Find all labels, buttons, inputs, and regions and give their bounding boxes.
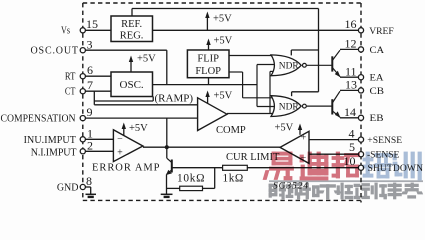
svg-text:+5V: +5V xyxy=(213,14,232,25)
svg-text:N.I.IMPUT: N.I.IMPUT xyxy=(31,147,77,158)
ground at Q3 emitter xyxy=(161,194,173,197)
wire VREF net from REF.REG. to pin 16 xyxy=(153,29,359,31)
svg-text:16: 16 xyxy=(345,17,357,31)
watermark blue char xun xyxy=(393,152,421,180)
svg-text:GND: GND xyxy=(57,183,79,194)
wire Q3 base to shutdown network xyxy=(167,168,223,189)
svg-text:RT: RT xyxy=(65,72,76,83)
wire oscillator clock line xyxy=(153,84,258,86)
watermark blue char pei xyxy=(363,152,421,180)
pin 3 OSC.OUT xyxy=(31,37,167,56)
svg-text:+5V: +5V xyxy=(137,54,156,65)
svg-text:+5V: +5V xyxy=(275,123,294,134)
NOR gate U-NOR1 xyxy=(271,55,306,76)
pin 7 CT xyxy=(65,78,111,98)
pin 4 +SENSE xyxy=(309,127,402,146)
svg-text:+SENSE: +SENSE xyxy=(367,135,402,146)
watermark red char yi xyxy=(263,152,359,180)
svg-text:+: + xyxy=(301,132,307,143)
resistor R2 1kOhm xyxy=(223,165,248,184)
svg-text:5: 5 xyxy=(349,140,355,154)
svg-text:8: 8 xyxy=(86,174,92,188)
svg-text:OSC.OUT: OSC.OUT xyxy=(31,46,79,57)
svg-text:FLIP: FLIP xyxy=(197,54,219,65)
svg-text:3: 3 xyxy=(87,37,93,51)
svg-text:9: 9 xyxy=(87,105,93,119)
svg-text:NDR: NDR xyxy=(279,61,300,71)
wire error amp output / PWM node xyxy=(143,146,280,148)
+5V supply arrow above ERROR AMP xyxy=(122,123,149,136)
svg-text:15: 15 xyxy=(86,17,98,31)
+5V supply arrow above CUR LIMIT xyxy=(275,123,303,135)
junction PWM node xyxy=(165,145,169,149)
IC boundary dashed box xyxy=(83,3,361,203)
wire ramp from CT and OSC to comparator xyxy=(94,91,197,105)
wire OSC.OUT to clock line xyxy=(166,50,168,84)
svg-text:7: 7 xyxy=(87,78,93,92)
svg-text:+5V: +5V xyxy=(129,123,148,134)
svg-text:−: − xyxy=(117,134,123,145)
watermark gray slogan shepin he tianxian sheji zhuanjia xyxy=(269,183,423,199)
current limit amplifier CUR LIMIT xyxy=(226,131,309,164)
wire +5V bus from REF.REG. top to NOR gates xyxy=(132,9,319,97)
pin 1 INU.IMPUT xyxy=(24,126,114,146)
+5V supply arrow above OSC xyxy=(129,54,156,73)
watermark red char di xyxy=(300,152,328,180)
svg-text:ERROR AMP: ERROR AMP xyxy=(92,162,160,173)
svg-text:1kΩ: 1kΩ xyxy=(223,172,244,184)
pin 2 N.I.IMPUT xyxy=(31,139,114,159)
svg-text:CA: CA xyxy=(370,45,385,56)
error amplifier ERROR AMP xyxy=(92,130,160,174)
+5V supply arrow above COMP xyxy=(205,90,232,103)
oscillator OSC. xyxy=(111,72,153,97)
svg-text:COMP: COMP xyxy=(216,125,246,136)
wire clock to NOR1 and NOR2 xyxy=(257,65,274,107)
pin 16 VREF xyxy=(345,17,394,37)
svg-text:REF.: REF. xyxy=(121,19,142,30)
svg-text:4: 4 xyxy=(349,127,355,141)
watermark red char tuo xyxy=(332,152,360,178)
+5V supply arrow on VREF line xyxy=(205,12,232,31)
pin 14 EB xyxy=(340,105,384,124)
svg-text:NDR: NDR xyxy=(279,102,300,112)
wire compensation node to PWM node xyxy=(166,118,168,147)
pin 6 RT xyxy=(65,63,111,83)
svg-text:11: 11 xyxy=(345,64,357,78)
pin 10 SHUTDOWN xyxy=(247,154,423,174)
svg-text:Vs: Vs xyxy=(61,25,70,36)
pin 5 -SENSE xyxy=(309,140,400,160)
svg-text:6: 6 xyxy=(87,63,93,77)
pin 8 GND xyxy=(57,174,92,194)
svg-text:14: 14 xyxy=(344,105,356,119)
svg-text:2: 2 xyxy=(87,139,93,153)
svg-text:REG.: REG. xyxy=(120,31,144,42)
wire flip flop Qbar to NOR2 xyxy=(229,72,274,98)
transistor Q2 output B xyxy=(307,91,341,118)
svg-text:+5V: +5V xyxy=(214,90,233,101)
svg-text:(RAMP): (RAMP) xyxy=(155,93,194,105)
transistor Q3 shutdown xyxy=(166,147,172,194)
flip flop U-FF xyxy=(187,50,229,78)
pin 13 CB xyxy=(340,78,384,97)
svg-text:+: + xyxy=(117,147,123,158)
svg-text:EB: EB xyxy=(370,113,384,124)
resistor R1 10kOhm xyxy=(177,172,205,190)
svg-text:OSC.: OSC. xyxy=(120,79,144,91)
svg-text:10kΩ: 10kΩ xyxy=(177,172,205,184)
wire flip flop Q to NOR1 xyxy=(229,55,274,57)
pin 9 COMPENSATION xyxy=(1,105,198,124)
comparator COMP xyxy=(198,98,246,136)
svg-text:EA: EA xyxy=(370,73,384,84)
wire flip flop clock feed xyxy=(208,78,210,85)
svg-text:INU.IMPUT: INU.IMPUT xyxy=(24,135,76,146)
svg-text:FLOP: FLOP xyxy=(195,66,221,77)
svg-text:+5V: +5V xyxy=(214,36,233,47)
+5V supply arrow above FLIP FLOP xyxy=(206,36,232,50)
transistor Q1 output A xyxy=(307,50,341,77)
NOR gate U-NOR2 xyxy=(271,96,306,117)
watermark logo yidituo peixun xyxy=(263,152,423,199)
wire COMP output to NOR gates xyxy=(227,71,274,113)
pin 12 CA xyxy=(340,36,384,56)
svg-text:VREF: VREF xyxy=(369,26,394,37)
ground at GND pin xyxy=(86,187,97,197)
svg-text:12: 12 xyxy=(345,36,357,50)
voltage regulator U-REF REF.REG. xyxy=(111,16,153,42)
svg-text:13: 13 xyxy=(345,78,357,92)
pin 15 Vs xyxy=(61,17,111,36)
watermark underline xyxy=(269,180,423,182)
svg-text:CB: CB xyxy=(370,86,385,97)
svg-text:CT: CT xyxy=(65,87,76,98)
pin 11 EA xyxy=(340,64,384,83)
svg-text:COMPENSATION: COMPENSATION xyxy=(1,113,76,124)
